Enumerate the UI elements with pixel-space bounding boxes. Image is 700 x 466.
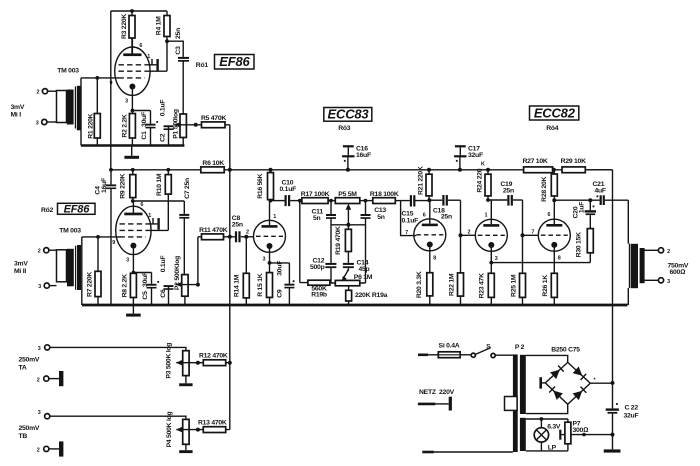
node C16 on rail [346,168,350,172]
wire line A (B+ drop from R29) [585,170,612,450]
svg-text:R10 1M: R10 1M [156,173,163,196]
tube U1 grid g3 row [119,70,145,72]
capacitor C4 16uF [94,170,116,305]
transformer TM003 #2 [57,245,82,290]
stage 1 input: terminal 3 (Mi I) [36,119,57,126]
svg-text:30uF: 30uF [141,112,148,127]
svg-text:1: 1 [148,213,151,219]
tube U4b cathode [551,242,557,273]
wire R17 to P5 [328,200,335,202]
svg-text:R9 220K: R9 220K [119,173,126,198]
svg-text:C3: C3 [175,46,182,55]
svg-text:EF86: EF86 [64,203,91,215]
svg-text:0.1uF: 0.1uF [159,100,166,117]
node P1 wiper / R5 [194,123,198,127]
node C8 / grid / R14 [244,235,248,239]
capacitor C10 0.1uF [280,179,302,206]
wire line B (to output transformer) [627,200,629,305]
tube U2 anode plate [124,201,142,215]
svg-text:25n: 25n [232,222,243,229]
svg-text:R26 1K: R26 1K [542,275,549,297]
wire B+ riser to stage-1 rail [110,11,112,170]
capacitor C1 30uF [141,111,158,146]
svg-text:R12 470K: R12 470K [199,353,228,360]
voltage selector box [505,397,518,411]
ground bar P3 [179,383,192,386]
svg-text:25n: 25n [175,28,182,39]
tube U1 grid g1 row [119,77,145,79]
svg-text:2: 2 [37,90,40,96]
svg-text:6.3V: 6.3V [547,424,561,431]
node R7 top junction [96,235,100,239]
lamp LP [534,419,556,452]
wire HV secondary top to bridge [526,355,568,362]
svg-text:4uF: 4uF [595,188,606,195]
label 250mV TB [19,425,40,440]
svg-text:R25 1M: R25 1M [510,274,517,297]
resistor R11 470K [198,227,230,240]
output transformer [629,244,644,289]
node U4b anode junction [552,198,599,202]
transformer TM003 #1 [57,86,81,131]
node R1 top junction [95,76,99,80]
wire U1 g3 to R4 [145,70,167,72]
svg-text:R19 470K: R19 470K [335,226,342,255]
svg-text:C1: C1 [141,131,148,140]
svg-text:R6 10K: R6 10K [202,160,224,167]
internal shield bar (U1) [156,59,158,71]
resistor R19b 560K [300,280,331,298]
switch S [471,343,495,357]
svg-text:250mV: 250mV [19,425,40,432]
resistor R24 220K [476,168,491,200]
node P4 wiper / R13 [196,428,200,432]
svg-text:0.1uF: 0.1uF [160,256,167,273]
svg-text:R22 1M: R22 1M [448,273,455,296]
resistor R7 220K [87,237,101,305]
svg-text:0.1uF: 0.1uF [280,186,297,193]
main ground bus [82,304,628,307]
tube U2 grid g3 row [120,229,146,231]
svg-text:TB: TB [19,433,28,440]
svg-text:Si 0.4A: Si 0.4A [439,342,460,349]
tube U4b grid row [541,234,568,236]
svg-text:C9: C9 [277,289,284,298]
bridge rectifier B250C75 diamond [545,362,590,404]
svg-text:R2 2.2K: R2 2.2K [121,114,128,138]
tube U1 cathode [129,84,135,111]
potentiometer P7 300 ohm [565,419,588,451]
wire heater top [526,418,568,420]
label box ECC83 [324,107,372,122]
wire stage-1 top rail [111,10,167,12]
mains stub bottom [422,451,513,454]
capacitor C12 500p [310,258,336,283]
potentiometer P1 500log [172,60,186,146]
capacitor C14 45p [343,260,370,274]
svg-text:3: 3 [263,257,266,263]
wire HV secondary bottom to bridge [526,404,568,413]
svg-text:S: S [486,343,491,350]
svg-text:R13 470K: R13 470K [198,420,227,427]
node U3b anode junction [427,198,442,202]
P6 wiper diagonal arrow [342,270,349,282]
svg-text:R19b: R19b [311,291,327,298]
tube U3b anode plate [422,200,438,226]
node wiper on line A [611,433,615,437]
resistor R22 1M [448,273,463,305]
wire U2 g3 to R10 [146,229,169,231]
svg-text:3: 3 [38,410,41,416]
svg-text:16uF: 16uF [101,178,108,193]
svg-text:R30 15K: R30 15K [576,232,583,257]
diode D1 (top-left) [550,366,564,380]
B+ rail [111,169,613,171]
wire fuse to switch [460,354,471,356]
svg-text:220K R19a: 220K R19a [355,292,388,299]
svg-text:R21 220K: R21 220K [417,166,424,195]
label box ECC82 [530,105,579,120]
tube U1 anode plate [123,38,141,56]
svg-text:25n: 25n [441,213,452,220]
wire bridge + output [590,382,612,384]
node R11 / summing [228,235,232,239]
internal shield bar (U2) [157,218,159,230]
transformer P2 primary [513,354,518,452]
resistor R2 2.2K [121,111,135,146]
svg-text:R16 56K: R16 56K [257,173,264,198]
svg-text:Mi I: Mi I [11,112,22,119]
svg-text:P 2: P 2 [515,344,525,351]
svg-text:EF86: EF86 [219,54,250,69]
svg-text:C7 25n: C7 25n [184,178,191,199]
node R12 / summing [228,361,232,365]
resistor R14 1M [233,237,249,305]
resistor R19a 220K [346,286,388,305]
node U4a grid tap [459,233,463,237]
resistor R30 15K [576,229,594,263]
tube U3b grid row [416,234,443,236]
capacitor C3 25n [175,28,189,62]
svg-text:P4 500K log: P4 500K log [166,412,173,448]
tube U4a cathode [488,242,494,263]
ground symbol stage 2 [126,305,141,317]
svg-text:7: 7 [531,229,534,235]
svg-text:K: K [481,162,485,168]
svg-text:R20 3.3K: R20 3.3K [416,271,423,298]
svg-text:NETZ 220V: NETZ 220V [419,389,455,396]
P1 wiper arrow [174,122,196,128]
label 750mV 600 ohm [668,263,689,276]
svg-text:Mi II: Mi II [14,268,26,275]
svg-text:Rö4: Rö4 [546,125,559,132]
tube U2 cathode [130,243,136,273]
svg-text:500p: 500p [310,264,325,271]
resistor R18 100K [370,191,401,203]
tube U4b ECC82 triode envelope [538,219,570,251]
capacitor C20 1uF [572,200,596,228]
P7 wiper bar [559,430,565,440]
summing bus vertical [229,125,231,430]
potentiometer P3 500K log [165,343,189,384]
svg-text:1: 1 [147,54,150,60]
tube U3a cathode [267,243,273,263]
stage-1 ground bus [81,144,184,147]
svg-text:6: 6 [140,202,143,208]
resistor R10 1M [156,170,172,231]
svg-text:R23 47K: R23 47K [478,273,485,298]
svg-text:R17 100K: R17 100K [301,191,330,198]
P5 wiper arrow [346,204,352,225]
node C13 top [364,199,368,203]
resistor R6 10K [201,160,225,173]
capacitor C16 16uF (electrolytic to rail) [342,145,371,170]
svg-text:2: 2 [38,249,41,255]
node C17 on rail [458,168,462,172]
svg-text:R3 220K: R3 220K [121,14,128,39]
svg-text:R28 20K: R28 20K [541,176,548,201]
svg-text:3: 3 [36,121,39,127]
svg-text:6: 6 [423,213,426,219]
node R6 right / summing [228,168,232,172]
capacitor C9 30uF [277,261,295,305]
svg-text:3mV: 3mV [11,104,25,111]
node stage-2 anode junction [131,199,184,203]
mains stub top [418,353,428,356]
label 3mV Mi I [11,104,25,119]
node on wiper wire [582,433,586,437]
wire stage-2 grid line [82,236,120,238]
resistor R8 2.2K [121,273,136,306]
svg-text:Rö2: Rö2 [41,207,54,214]
svg-text:3: 3 [126,257,129,263]
capacitor C18 25n [433,195,461,220]
svg-text:9: 9 [112,240,115,246]
svg-text:1: 1 [273,214,276,220]
svg-text:ECC83: ECC83 [328,107,370,122]
svg-text:3: 3 [38,346,41,352]
svg-text:2: 2 [37,377,40,383]
svg-text:B250 C75: B250 C75 [551,347,580,354]
svg-text:45p: 45p [359,266,370,273]
svg-text:R14 1M: R14 1M [233,274,240,297]
svg-text:30uF: 30uF [142,272,149,287]
tube U4a ECC82 triode envelope [475,219,507,251]
diode D2 (top-right) [573,367,587,381]
wire C18 node to R22 and U4a grid [461,200,476,273]
node U4b grid tap [521,233,525,237]
svg-text:2: 2 [37,448,40,454]
svg-text:2: 2 [246,229,249,235]
wire stage-1 left edge [80,78,82,146]
capacitor C21 4uF [593,181,629,205]
resistor R28 20K [541,170,557,202]
P2 wiper arrow [176,282,198,288]
input terminal 2 (TB) with chassis bar [37,441,64,456]
svg-text:R24 220: R24 220 [476,168,483,192]
node cathode junction stage 1 [131,109,151,113]
capacitor C5 30uF [142,272,159,305]
svg-text:P5 5M: P5 5M [338,191,357,198]
node R16 bottom / anode / C10 [269,199,285,203]
svg-text:250mV: 250mV [19,356,40,363]
svg-text:P3 500K log: P3 500K log [165,343,172,379]
wire heater bottom [526,450,568,452]
node P5 wiper on C11-C13 link [346,223,350,227]
node R9 top on rail [131,168,135,172]
ground symbol stage 1 [124,146,139,159]
svg-text:3: 3 [495,256,498,262]
wire R4 to C3 [167,41,183,57]
resistor R16 56K [257,170,274,201]
wire tone output to U3b grid [401,201,417,236]
capacitor C7 25n [179,178,191,275]
svg-text:600Ω: 600Ω [670,269,686,276]
node U4a anode junction [486,198,507,202]
svg-text:Rö3: Rö3 [338,125,351,132]
svg-text:R29 10K: R29 10K [561,158,586,165]
resistor R27 10K [522,158,552,173]
svg-text:300Ω: 300Ω [573,427,589,434]
fuse Si 0.4A [438,342,460,357]
resistor R20 3.3K [416,271,433,305]
potentiometer P2 500Klog [174,256,188,305]
svg-text:5n: 5n [377,214,385,221]
tube U3a anode plate [262,201,278,228]
svg-text:C 22: C 22 [625,404,639,411]
node bridge output on line A [611,381,615,385]
ground bar P4 [179,450,192,453]
transformer P2 HV secondary [520,355,526,414]
input terminal 2 (TA) with chassis bar [37,371,64,386]
tube U4a anode plate [483,200,499,227]
svg-text:3: 3 [125,98,128,104]
svg-text:1: 1 [485,212,488,218]
svg-text:6: 6 [548,212,551,218]
label 3mV Mi II [14,261,28,275]
diode D3 (bottom-left) [549,387,563,400]
stage 2 input: terminal 3 (Mi II) [38,283,56,290]
node U4a cathode junction [489,261,493,265]
tube U3a ECC83 triode envelope [254,220,286,252]
svg-text:R4 1M: R4 1M [156,16,163,35]
node C11 top [329,199,333,203]
label box EF86 (Rö2) [58,203,96,215]
svg-text:C6: C6 [160,289,167,298]
svg-text:3mV: 3mV [14,261,28,268]
svg-text:7: 7 [405,230,408,236]
tube U3b ECC83 triode envelope [414,219,446,251]
svg-text:32uF: 32uF [624,412,639,419]
diode D4 (bottom-right) [573,387,587,401]
tube U3a grid row [256,235,283,237]
resistor R17 100K [301,191,330,203]
svg-text:R5 470K: R5 470K [201,115,226,122]
bridge AC bar terminal [539,377,545,388]
node P2 wiper / R11 riser [196,237,200,287]
stage 2 input: terminal 2 (Mi II) [38,248,57,255]
wire C11-C13 link [331,224,366,226]
svg-text:6: 6 [139,43,142,49]
svg-text:R7 220K: R7 220K [87,272,94,297]
output terminal 3 [644,278,670,285]
tube U4a grid row [478,234,505,236]
svg-text:30uF: 30uF [277,261,284,276]
wire feedback line (U4a cathode to R30) [491,262,590,264]
svg-text:R8 2.2K: R8 2.2K [121,274,128,298]
capacitor C11 5n [312,201,337,263]
capacitor C2 0.1uF [159,100,173,146]
svg-text:0.1uF: 0.1uF [402,217,419,224]
node R4 bottom / C3 junction [165,39,169,43]
svg-text:ECC82: ECC82 [534,105,576,120]
node cathode junction stage 2 [132,271,152,275]
P4 wiper arrow [176,427,198,433]
resistor R25 1M [510,273,525,305]
svg-text:9: 9 [110,81,113,87]
wire stage-1 grid line [81,77,119,79]
capacitor C13 5n [361,201,387,283]
resistor R1 220K [88,78,101,146]
wire switch to transformer [495,354,513,356]
resistor R26 1K [542,273,557,305]
node R24 top on rail [486,168,490,172]
potentiometer P4 500K log [166,412,189,451]
svg-text:R11 470K: R11 470K [199,227,228,234]
wire stage-2 left edge [81,237,83,305]
potentiometer P5 5M [335,191,360,203]
tube U2 grid g1 row [120,236,146,238]
node C4 on rail [109,168,113,172]
resistor R5 470K [196,115,230,128]
input terminal 3 (TA) [38,345,186,352]
svg-text:2: 2 [667,249,670,255]
svg-text:25n: 25n [503,188,514,195]
svg-text:Rö1: Rö1 [196,62,209,69]
svg-text:1uF: 1uF [578,202,585,213]
node U3a cathode junction [268,261,290,265]
tube U2 EF86 envelope [116,206,151,254]
wire mains to fuse [428,354,438,356]
resistor R4 1M [156,11,170,71]
transformer P2 heater secondary [520,418,526,451]
svg-text:8: 8 [558,255,561,261]
node R3 top [130,9,134,13]
stage 1 input: terminal 2 (Mi I) [37,89,57,96]
wire P7 wiper to ground line [571,434,613,436]
resistor R29 10K [561,158,586,173]
resistor R23 47K [478,263,494,305]
svg-text:TM 003: TM 003 [57,68,79,75]
svg-text:3: 3 [667,279,670,285]
svg-text:R27 10K: R27 10K [522,158,547,165]
svg-text:R1 220K: R1 220K [88,113,95,138]
svg-text:R 15 1K: R 15 1K [257,273,264,297]
label 250mV TA [19,356,40,371]
resistor R3 220K [121,11,135,55]
capacitor C6 0.1uF [160,256,174,305]
svg-text:R18 100K: R18 100K [370,191,399,198]
svg-text:8: 8 [433,256,436,262]
potentiometer P6 1M [331,274,373,286]
tube U1 EF86 envelope [115,47,150,95]
node R10 top on rail [166,168,170,172]
tube U1 grid g2 row [119,59,157,65]
svg-text:2: 2 [468,230,471,236]
capacitor C19 25n [500,181,522,206]
wire C19 node to R25 and U4b grid [523,200,538,273]
svg-text:C5: C5 [142,291,149,300]
